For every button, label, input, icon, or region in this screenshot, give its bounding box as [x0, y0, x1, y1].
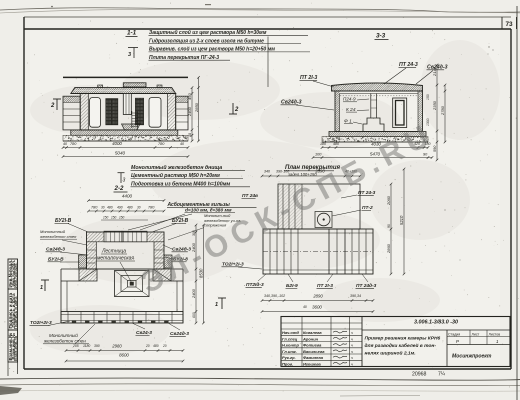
svg-text:4400: 4400 — [122, 193, 133, 198]
svg-text:40: 40 — [188, 133, 192, 137]
svg-text:1: 1 — [40, 285, 43, 291]
svg-text:Р: Р — [456, 339, 459, 344]
svg-text:Нач.отд: Нач.отд — [282, 330, 299, 335]
svg-text:5210: 5210 — [399, 215, 404, 225]
svg-text:150: 150 — [119, 216, 125, 220]
svg-text:40: 40 — [303, 305, 307, 309]
svg-text:780: 780 — [91, 206, 98, 210]
svg-text:450: 450 — [187, 93, 192, 100]
svg-text:Аронин: Аронин — [302, 336, 319, 341]
svg-text:Гл.инж.: Гл.инж. — [282, 349, 297, 354]
svg-text:780: 780 — [158, 142, 165, 146]
svg-text:20: 20 — [162, 344, 167, 348]
svg-text:2350: 2350 — [432, 100, 437, 111]
svg-text:340,390,-102: 340,390,-102 — [264, 294, 285, 298]
svg-text:5040: 5040 — [115, 151, 126, 156]
svg-text:Защитный слой из цем раствора: Защитный слой из цем раствора М50 h=30мм — [149, 29, 267, 36]
svg-text:Рук.гр.: Рук.гр. — [282, 355, 296, 360]
svg-text:3.006.1-3/83.0 -30: 3.006.1-3/83.0 -30 — [414, 320, 458, 326]
svg-text:300: 300 — [192, 230, 196, 236]
svg-text:780: 780 — [148, 206, 155, 210]
svg-text:20: 20 — [145, 344, 150, 348]
svg-text:480: 480 — [333, 142, 339, 146]
svg-text:Пример решения камеры КРН6: Пример решения камеры КРН6 — [365, 336, 441, 342]
svg-text:ч: ч — [351, 350, 353, 354]
svg-text:340: 340 — [264, 170, 270, 174]
svg-text:3600: 3600 — [312, 304, 322, 309]
svg-text:ч: ч — [351, 337, 353, 341]
svg-text:30: 30 — [137, 206, 141, 210]
svg-text:Ковалева: Ковалева — [303, 330, 322, 335]
svg-text:3-3: 3-3 — [376, 33, 386, 40]
svg-text:ч: ч — [351, 344, 353, 348]
svg-text:40: 40 — [180, 142, 184, 146]
svg-text:7¼: 7¼ — [438, 372, 446, 378]
svg-text:90: 90 — [387, 224, 391, 228]
svg-text:2: 2 — [50, 103, 55, 109]
svg-text:2890: 2890 — [312, 293, 323, 298]
svg-text:ч: ч — [351, 331, 353, 335]
svg-text:180: 180 — [320, 142, 326, 146]
svg-text:150: 150 — [111, 216, 117, 220]
svg-text:Монолитный: Монолитный — [49, 332, 78, 338]
svg-text:1: 1 — [215, 302, 218, 308]
svg-text:4000: 4000 — [112, 141, 122, 146]
svg-text:Лист: Лист — [472, 332, 480, 336]
svg-text:Фотиева: Фотиева — [303, 343, 322, 348]
svg-text:железобетон стен: железобетон стен — [39, 234, 77, 239]
svg-text:2: 2 — [234, 107, 239, 113]
svg-text:Васильева: Васильева — [303, 349, 325, 354]
svg-text:Лестница: Лестница — [101, 249, 126, 255]
svg-text:Стадия: Стадия — [448, 332, 460, 336]
svg-text:Цементный раствор М50 h=20м: Цементный раствор М50 h=20мм — [131, 172, 220, 179]
svg-text:нелях шириной 2,1м.: нелях шириной 2,1м. — [365, 350, 416, 357]
svg-text:Подпись и дата: Подпись и дата — [13, 296, 18, 329]
svg-text:металлическая: металлическая — [97, 256, 134, 262]
svg-text:Гидроизоляция из 2-х слоев изо: Гидроизоляция из 2-х слоев изола на биту… — [149, 37, 264, 44]
svg-text:2980: 2980 — [111, 343, 122, 348]
svg-text:Фамилева: Фамилева — [303, 355, 324, 360]
svg-text:390,34: 390,34 — [350, 294, 361, 298]
svg-text:490: 490 — [117, 206, 123, 210]
svg-text:30: 30 — [101, 206, 105, 210]
svg-text:390: 390 — [94, 344, 100, 348]
svg-text:390-100: 390-100 — [276, 170, 289, 174]
svg-text:1-1: 1-1 — [127, 30, 137, 37]
svg-text:2780: 2780 — [440, 105, 445, 116]
svg-text:Подготовка из бетона М400: Подготовка из бетона М400 h=100мм — [131, 181, 230, 188]
svg-text:П24-9: П24-9 — [343, 97, 356, 102]
svg-text:ч: ч — [351, 356, 353, 360]
svg-text:2400: 2400 — [187, 106, 192, 117]
svg-text:Асбоцементные гильзы: Асбоцементные гильзы — [167, 201, 231, 208]
svg-text:Н.контр: Н.контр — [282, 343, 299, 348]
svg-text:Взам.инв.№: Взам.инв.№ — [13, 336, 18, 361]
svg-text:2850: 2850 — [194, 102, 199, 113]
svg-text:73: 73 — [505, 21, 513, 28]
svg-text:Листов: Листов — [489, 332, 501, 336]
svg-text:3: 3 — [128, 52, 131, 58]
svg-text:Гл.спец: Гл.спец — [282, 336, 298, 341]
svg-text:2860: 2860 — [386, 243, 391, 254]
svg-text:150: 150 — [103, 216, 109, 220]
svg-text:480: 480 — [107, 206, 113, 210]
svg-text:Выравнив. слой из цем раствора: Выравнив. слой из цем раствора М50 h=20+… — [149, 46, 275, 53]
svg-text:20968: 20968 — [412, 372, 427, 378]
svg-text:для разводки кабелей в тон-: для разводки кабелей в тон- — [365, 342, 437, 349]
svg-text:Игошева: Игошева — [303, 361, 322, 366]
svg-text:600: 600 — [192, 312, 196, 318]
svg-text:8600: 8600 — [119, 353, 129, 358]
svg-text:2-2: 2-2 — [114, 185, 125, 192]
svg-text:3: 3 — [123, 178, 126, 184]
svg-text:2140: 2140 — [432, 66, 437, 77]
svg-text:1180: 1180 — [83, 344, 90, 348]
svg-text:205: 205 — [72, 344, 79, 348]
svg-text:480: 480 — [153, 344, 159, 348]
svg-text:40: 40 — [63, 142, 67, 146]
svg-text:2400: 2400 — [191, 288, 196, 299]
svg-text:2060: 2060 — [386, 195, 391, 206]
svg-text:150: 150 — [426, 94, 430, 100]
svg-text:Пров.: Пров. — [282, 361, 293, 366]
svg-text:ч: ч — [351, 362, 353, 366]
svg-text:480: 480 — [127, 206, 133, 210]
svg-text:100: 100 — [315, 153, 322, 157]
svg-text:Монолитный железобетон днища: Монолитный железобетон днища — [131, 164, 222, 171]
svg-text:Мосинжпроект: Мосинжпроект — [452, 354, 492, 360]
svg-text:Инв.№подл.: Инв.№подл. — [13, 263, 18, 288]
svg-text:780: 780 — [70, 142, 77, 146]
